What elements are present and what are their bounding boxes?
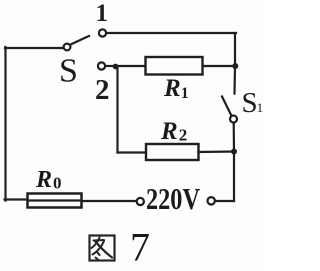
node B junction dot	[232, 63, 238, 69]
node A junction dot	[113, 64, 119, 70]
wire right vertical lower	[233, 152, 235, 202]
resistor R2	[146, 144, 199, 160]
wire S1 lower lead	[233, 123, 236, 152]
wire top horizontal from contact 1	[106, 32, 236, 34]
wire R1 right to node B	[203, 65, 235, 67]
supply right terminal	[208, 197, 215, 204]
svg-text:R0: R0	[35, 167, 62, 193]
caption glyph 图	[90, 236, 115, 261]
supply left terminal	[137, 198, 144, 205]
svg-text:2: 2	[95, 74, 110, 106]
wire top-left horizontal to switch S pole	[5, 47, 64, 49]
svg-text:R2: R2	[160, 118, 187, 145]
resistor R1	[146, 57, 203, 75]
switch S contact 2 terminal	[98, 62, 105, 69]
node C junction dot	[231, 149, 237, 155]
resistor R0	[28, 194, 82, 208]
wire middle vertical node A to R2 row	[116, 67, 118, 153]
wire node A to R1	[116, 65, 146, 67]
wire left vertical	[4, 47, 6, 201]
svg-text:S: S	[59, 53, 78, 90]
svg-text:S1: S1	[242, 87, 264, 119]
switch S pole terminal	[64, 44, 71, 51]
wire contact 2 to node A	[105, 65, 116, 67]
svg-text:7: 7	[130, 225, 150, 270]
svg-text:R1: R1	[163, 75, 189, 102]
switch S blade	[71, 36, 90, 45]
svg-text:220V: 220V	[146, 181, 200, 216]
wire supply left terminal to R0	[82, 200, 137, 202]
svg-text:1: 1	[96, 0, 109, 27]
switch S contact 1 terminal	[99, 29, 106, 36]
wire middle horizontal to R2	[118, 151, 147, 153]
wire right vertical upper	[234, 33, 236, 66]
switch S1 contact terminal	[230, 116, 237, 123]
wire S1 upper lead	[233, 66, 236, 94]
wire R2 right to node C	[199, 150, 235, 153]
wire bottom-left horizontal to R0	[5, 198, 29, 200]
wire bottom right to supply terminal	[215, 200, 234, 202]
switch S1 blade	[222, 97, 232, 117]
resistor R0 middle line	[28, 199, 81, 201]
